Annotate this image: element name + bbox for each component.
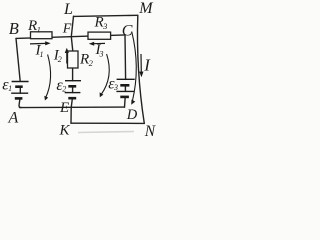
wire battery2 to node E: [71, 98, 72, 107]
svg-text:N: N: [144, 123, 157, 140]
svg-text:E: E: [59, 100, 69, 116]
svg-text:I2: I2: [53, 48, 62, 65]
current arrow I on right outer wire: [139, 54, 143, 77]
loop arrow right (curved): [131, 32, 136, 105]
battery E1: [11, 82, 28, 99]
svg-text:L: L: [63, 1, 73, 18]
wire right branch C down to battery3: [124, 35, 127, 79]
wire middle branch L corner to F to R2: [71, 16, 73, 51]
svg-text:A: A: [8, 110, 19, 127]
wire bottom inner A to D: [20, 106, 125, 109]
wire battery1 to corner A: [19, 98, 21, 107]
svg-text:I1: I1: [35, 43, 44, 60]
wire node E to K: [70, 108, 72, 124]
resistor R3: [88, 32, 111, 39]
wire right outer M to N: [137, 15, 144, 123]
current arrow I3: [89, 42, 105, 46]
svg-text:M: M: [138, 0, 154, 17]
scan smudge bottom: [78, 132, 134, 133]
svg-text:ε1: ε1: [2, 76, 12, 93]
battery E2: [65, 81, 81, 99]
resistor R1: [31, 32, 53, 39]
wire bottom outer N to K: [71, 122, 144, 124]
wire left branch B down to battery: [16, 38, 20, 81]
wire R2 to battery2: [72, 68, 74, 81]
svg-text:C: C: [122, 23, 133, 40]
svg-text:ε3: ε3: [108, 75, 118, 92]
svg-text:I3: I3: [95, 42, 104, 59]
wire battery2 internal stub: [72, 86, 74, 92]
wire battery3 to corner D: [124, 97, 127, 107]
resistor R2: [68, 51, 79, 68]
loop arrow left (curved): [44, 55, 50, 101]
current arrow I1: [30, 41, 51, 45]
svg-text:K: K: [59, 123, 71, 139]
battery E3: [116, 79, 134, 97]
svg-text:F: F: [62, 22, 72, 37]
wire battery3 internal stub: [124, 85, 126, 91]
svg-text:R1: R1: [27, 18, 41, 35]
svg-text:B: B: [9, 19, 19, 38]
svg-text:D: D: [126, 107, 138, 123]
svg-text:R3: R3: [94, 15, 108, 32]
svg-text:ε2: ε2: [56, 77, 66, 94]
loop arrow middle (curved): [100, 54, 110, 97]
wire battery1 internal stub: [19, 87, 21, 94]
wire main top B to C: [16, 35, 125, 39]
wire top outer L to M: [74, 15, 138, 16]
svg-text:R2: R2: [79, 52, 94, 69]
current arrow I2: [65, 48, 69, 64]
svg-text:I: I: [143, 56, 151, 75]
